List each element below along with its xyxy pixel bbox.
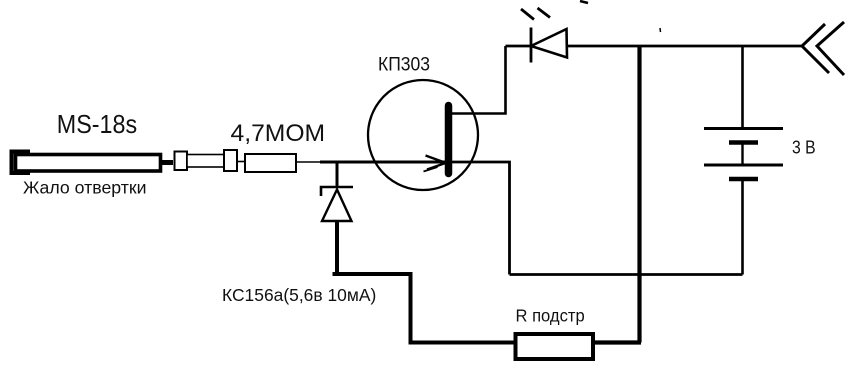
svg-text:КС156а(5,6в 10мА): КС156а(5,6в 10мА) [222, 285, 376, 305]
probe MS-18s (screwdriver tip) [12, 152, 174, 174]
wire gate (thick part) [320, 161, 448, 164]
resistor R2 4,7МОМ [245, 154, 296, 172]
wire gate (thin part) [296, 161, 322, 163]
svg-text:MS-18s: MS-18s [57, 109, 137, 139]
wire [237, 161, 245, 163]
wire thick vertical middle [637, 46, 641, 343]
resistor R1 (series element near probe) [175, 150, 238, 171]
wire drain to LED [452, 46, 506, 114]
wire zener to bottom [337, 221, 516, 343]
svg-text:4,7МОМ: 4,7МОМ [231, 120, 326, 147]
battery GB1 3 В [704, 46, 783, 275]
transistor VT1 КП303 [368, 80, 478, 190]
svg-text:КП303: КП303 [378, 55, 430, 76]
wire resistor to vertical [593, 340, 642, 344]
connector X1 (contact chevrons) [802, 22, 844, 75]
wire bottom rail (source to battery) [510, 273, 743, 276]
svg-text:Жало отвертки: Жало отвертки [23, 178, 147, 198]
wire source down [452, 162, 510, 275]
zener diode VD1 КС156а [321, 162, 353, 221]
svg-text:R подстр: R подстр [516, 306, 585, 326]
wire top rail [506, 45, 803, 48]
speck near rail [659, 28, 662, 32]
svg-text:3 В: 3 В [792, 137, 816, 157]
speck top [580, 1, 588, 3]
resistor R подстр [516, 334, 594, 359]
LED VD2 [521, 8, 567, 63]
